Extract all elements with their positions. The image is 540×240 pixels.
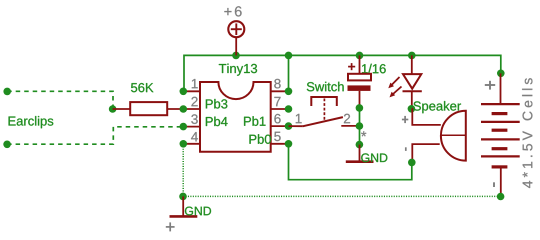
wire earclip top (dashed) [7,91,113,107]
wire bottom rail (dotted) [183,195,501,197]
wire pin4 to ground junction (dotted) [182,144,184,197]
node switch pin2 [356,122,364,130]
node pin8 rail junction [285,52,293,60]
pin 3 [180,114,201,130]
pin 4 [180,132,201,147]
op IC U1 Tiny13 [200,64,271,152]
label Earclips [9,116,54,128]
ground GND2 [170,196,212,216]
resistor 56K [113,83,184,115]
pin 2 [180,97,201,113]
node supply junction [232,52,240,60]
wire cap to switch to gnd1 [359,108,361,145]
ground GND1 [346,145,388,163]
switch S1 [289,82,360,127]
pin 6 [271,114,293,130]
pin 7 [271,97,293,113]
node cap rail junction [356,52,364,60]
node speaker minus [408,159,416,167]
wire earclip bottom (dashed) [7,127,183,144]
speaker SP1 [402,101,466,162]
node gnd2 junction [179,193,187,201]
pin 8 [271,79,293,95]
node led cathode [408,105,416,113]
label * [361,131,366,136]
node gnd1 junction [356,141,364,149]
pin 1 [180,79,201,95]
origin cross [166,222,175,231]
supply +6 symbol [224,6,244,55]
capacitor 1/16 [348,55,386,108]
diode LED1 [388,55,422,108]
wire pin5 to speaker minus [289,144,412,180]
battery B1 4*1.5V Cells [481,73,532,196]
earclip node top [3,88,11,96]
node led rail junction [408,52,416,60]
node resistor left [109,105,117,113]
pin 5 [271,132,293,148]
wire pin8 to top rail [288,55,290,91]
earclip node bottom [3,141,11,149]
node cap bottom [356,104,364,112]
node battery plus [497,70,505,78]
node battery minus [497,193,505,201]
wire top rail [184,55,501,91]
